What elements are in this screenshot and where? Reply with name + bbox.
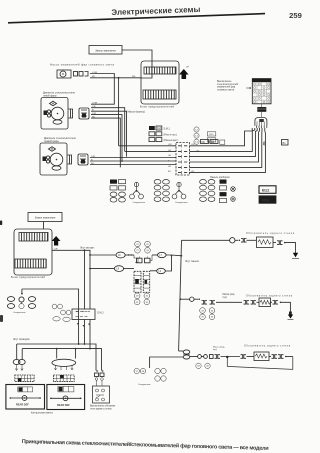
connector grid right [53,375,74,382]
svg-text:L9: L9 [159,271,162,273]
washer row 1 top wire [182,239,231,241]
svg-text:пус): пус) [213,349,217,351]
legend S1 circled numbers [194,127,225,144]
svg-text:40: 40 [206,366,209,368]
svg-text:B/L: B/L [168,171,172,173]
svg-text:(Реле в тал.): (Реле в тал.) [164,134,178,136]
harness wires to defogger switch [84,320,102,371]
SMJ wire tick marks [77,323,90,327]
svg-text:L6: L6 [118,255,121,257]
svg-text:Блок предохранителей: Блок предохранителей [140,104,174,108]
svg-text:37: 37 [135,371,138,373]
svg-text:L8: L8 [117,269,120,271]
svg-text:259: 259 [289,11,302,20]
wire pump L/OR loop to left motor [90,72,114,105]
svg-text:31: 31 [136,302,139,304]
wire ground feed [21,289,79,320]
svg-text:25: 25 [136,244,139,246]
grommet oval right [52,359,76,370]
svg-text:L/OR: L/OR [92,102,98,104]
ground arrow row2 [288,312,294,320]
svg-text:S.M.J.: S.M.J. [97,312,104,315]
heater row right connectors [269,355,293,359]
wire strip row1 to switch pin1 [190,128,253,146]
svg-text:UP: UP [186,67,190,69]
svg-text:N13: N13 [262,198,270,203]
legend circle pair row3 [196,363,210,368]
legend tag column group 6 [220,180,227,203]
fuse strip 2 [143,90,176,99]
svg-text:S13: S13 [157,128,162,130]
svg-text:(Разъем щит.): (Разъем щит.) [164,140,179,142]
svg-text:правой фары: правой фары [44,140,59,143]
fuse strip 1 [144,67,176,74]
strip row labels [168,144,200,173]
connector tag B3 [210,140,218,144]
svg-text:Жгут моторн.: Жгут моторн. [80,247,95,250]
svg-text:S.M.J.: S.M.J. [164,128,171,131]
svg-text:Жгут проводов: Жгут проводов [13,338,30,341]
svg-text:14: 14 [195,142,198,144]
up arrow by fuse block 2 [52,236,61,246]
grommet oval left [13,359,25,370]
svg-text:Принципиальная схема стеклоочи: Принципиальная схема стеклоочистителей/с… [22,438,269,452]
svg-text:Электрические схемы: Электрические схемы [111,5,200,17]
svg-text::: : [238,198,239,201]
wire pump B/L to fuse block [90,76,141,79]
legend circles branch pair [155,368,166,381]
svg-text:39: 39 [197,366,200,368]
defogger switch box [93,386,110,403]
svg-text:33: 33 [201,310,204,312]
washer motor W1 resistor box [257,237,274,248]
connector oval L8 [114,266,123,272]
wiper switch annotation text [217,81,238,91]
control bus vertical [179,240,200,351]
svg-text:Замок зажигания: Замок зажигания [95,48,116,52]
legend circle column group 5 [200,180,215,202]
legend tag column group 1 [110,180,126,203]
svg-text:В12: В12 [210,134,215,136]
svg-text:Панель приборов: Панель приборов [210,176,230,179]
fuse block F2 [11,229,52,279]
header rule [8,14,265,23]
wire fuse2 feed [52,249,90,310]
washer row 2 wire [180,297,259,304]
svg-text:Блок предохранителей: Блок предохранителей [11,275,45,279]
wire strip row4 to switch pin4 [190,128,260,162]
legend circles S.M.J left [52,304,71,321]
legend polarity symbols [231,187,239,202]
fuse strip 3 [19,233,48,242]
svg-text:REAR DEF: REAR DEF [16,404,29,407]
svg-text:35: 35 [201,317,204,319]
svg-text:Обогреватель заднего стекла: Обогреватель заднего стекла [246,296,293,298]
ignition switch box S1 [89,46,122,55]
wire strip row3 to switch pin3 [190,128,258,157]
headlight washer pump M1 [57,70,88,78]
svg-text:стеклоочистителей/: стеклоочистителей/ [217,83,238,86]
svg-text:Насос омывателей фар головного: Насос омывателей фар головного света [50,62,115,66]
trunk vertical from pump junction [118,78,120,146]
fuse strip 4 [15,259,46,268]
svg-text:В1: В1 [283,141,287,145]
legend tag B12 [259,186,276,194]
legend tag N13 [259,196,276,204]
connector oval L6 [116,252,125,258]
wiper switch pin table SW1 [252,79,271,104]
ground arrow row1 [292,250,299,259]
svg-text:30: 30 [146,296,149,298]
svg-text:Масса (кор-: Масса (кор- [223,294,236,296]
legend circles pair A [135,241,151,253]
wire strip row5 to switch pin5 [190,128,263,167]
svg-text:Обогреватель заднего стекла: Обогреватель заднего стекла [246,233,295,235]
ignition switch box S2 [28,213,62,222]
svg-text:L7: L7 [159,255,162,257]
svg-text:Контрольная панель: Контрольная панель [31,413,54,415]
svg-text:головного света: головного света [217,89,235,91]
svg-text:Масса (корпус): Масса (корпус) [128,110,146,113]
svg-text:Замок зажигания: Замок зажигания [35,216,56,220]
connector tag M6 [201,140,209,144]
svg-text:32: 32 [146,302,149,304]
left edge scan smudge 2 [0,315,3,322]
svg-text:Обогреватель заднего стекла: Обогреватель заднего стекла [244,345,291,347]
heater row wire left branch [150,357,183,368]
svg-text:36: 36 [211,317,214,319]
svg-text:L/R: L/R [92,106,96,108]
bus bottom connector stack [179,350,190,359]
svg-text:Соединение: Соединение [138,384,151,386]
legend circles row2 [200,308,215,320]
relay strip B [143,271,149,292]
left motor wires to trunk [91,106,127,167]
caption [22,438,269,452]
harness wires left pair [17,320,90,360]
rear def box right [47,385,85,410]
svg-text:B12: B12 [262,188,270,193]
washer row1 connector pair left [235,239,257,243]
up arrow by fuse block [179,67,190,80]
switch plug pin stubs [256,126,266,129]
wire feed row 2 [89,256,171,271]
connector tag B1 [282,140,289,146]
relay strip A [134,271,141,292]
washer row2 right side [271,301,291,312]
legend branch symbol 2 [172,182,188,204]
svg-text:левой фары: левой фары [43,94,57,97]
wire ignition2 to fuse block2 [43,222,45,230]
svg-text:Соединение: Соединение [133,202,146,204]
svg-text:L/R: L/R [168,150,172,152]
svg-text:L/R: L/R [168,166,172,168]
connector oval L9 [157,268,166,273]
connector grid left [15,375,34,382]
svg-text:27: 27 [136,250,139,252]
svg-text:12: 12 [195,129,198,131]
svg-text:34: 34 [211,310,214,312]
svg-text:Жгут панели: Жгут панели [185,260,200,263]
switch connector block dark [257,104,266,118]
legend connection group bottom-left [7,297,35,314]
svg-text:38: 38 [142,371,145,373]
wire inside fuse block to W/L exit [141,61,152,78]
washer row1 connector pair right [273,241,296,250]
wire ignition to fuse block [122,50,152,61]
left wiper motor M2 [41,98,89,130]
svg-text:REAR DEF: REAR DEF [57,404,70,407]
svg-text:L/B: L/B [168,155,172,157]
wire strip row6 to switch pin6 [190,128,266,173]
inline connector circle [230,238,235,243]
svg-text:Соединение: Соединение [13,312,26,314]
fuse block F1 [140,61,179,108]
connector oval L7 [158,252,167,257]
svg-text:L/OR: L/OR [92,72,98,74]
svg-text:Выключатель обогрева-: Выключатель обогрева- [90,406,116,408]
left edge scan smudge 1 [0,221,2,226]
trunk wires into connector strip [119,146,176,152]
legend branch symbol 1 [130,182,146,204]
rear def box left [6,385,45,410]
svg-text:13: 13 [195,136,198,138]
defogger switch connector [95,370,105,386]
svg-text:теля заднего стекла: теля заднего стекла [90,408,112,410]
legend S1 connector tags [149,126,179,142]
svg-text:Масса (кор-: Масса (кор- [213,347,225,349]
svg-text:28: 28 [146,250,149,252]
svg-text:омывателей фар: омывателей фар [217,86,236,89]
right motor wires [90,156,176,165]
svg-text:Выключатель: Выключатель [217,81,232,83]
page number 259 [289,11,302,20]
svg-text:L/R: L/R [54,249,58,251]
heater element resistor box [254,352,269,361]
svg-text::: : [238,188,239,191]
legend circles below strips [134,293,149,305]
svg-text:5W: 5W [262,142,266,146]
legend circle column group 3 [154,180,169,202]
legend circles branch single [134,368,151,386]
right wiper motor M3 [40,143,88,175]
svg-text:пус): пус) [223,297,228,299]
page header title [111,5,200,17]
heater element outline [227,357,292,370]
S.M.J pass-through box [72,309,104,320]
svg-text:L/W: L/W [168,144,172,146]
wire feed row 1 [89,254,181,256]
annotation arrow [246,87,251,89]
svg-text:Соединение: Соединение [175,202,188,204]
washer motor W2 resistor box [259,298,271,307]
heater row wire right [190,355,254,359]
switch lower connector plug [255,118,267,126]
connector strip X1 [176,143,190,176]
svg-text:26: 26 [146,244,149,246]
relay symbol pair [134,255,152,263]
wire strip row2 to switch pin2 [190,128,255,151]
svg-text:29: 29 [136,296,139,298]
